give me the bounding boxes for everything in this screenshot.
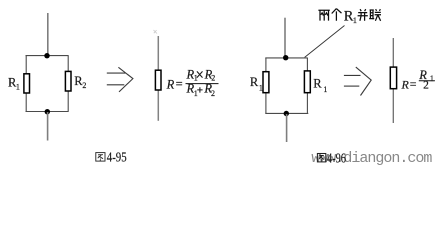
label R1 [8, 75, 20, 91]
formula R = R1*R2/(R1+R2) [166, 67, 219, 98]
wire: right circuit top stub [284, 18, 286, 57]
glyph LIAN (connect) [369, 9, 381, 21]
svg-text:1: 1 [353, 15, 357, 25]
node: left circuit top junction [44, 53, 49, 58]
formula R = R1/2 [401, 68, 435, 92]
svg-text:2: 2 [82, 81, 86, 90]
wire: right circuit bottom rail [265, 112, 308, 114]
arrow: implies arrow 1 [107, 67, 133, 92]
wire: middle resistor lead [157, 36, 159, 121]
svg-text:4-95: 4-95 [107, 150, 127, 165]
resistor R (equivalent, right) [390, 67, 396, 89]
wire: left circuit bottom stub [47, 112, 49, 141]
wire: right circuit top rail [265, 57, 308, 59]
caption: figure 4-95 [96, 150, 127, 165]
svg-text:R: R [166, 77, 175, 91]
wire: left circuit right branch [67, 56, 69, 112]
wire: right circuit left branch [265, 58, 267, 114]
svg-text:1: 1 [194, 89, 198, 98]
svg-text:4-96: 4-96 [327, 150, 346, 165]
glyph GE (piece) [332, 9, 342, 21]
svg-text:1: 1 [16, 83, 20, 92]
svg-text:R: R [313, 77, 322, 91]
svg-text:1: 1 [430, 73, 434, 83]
glyph TU (picture) [317, 154, 325, 162]
resistor R1 (left of right circuit) [263, 72, 269, 93]
caption: figure 4-96 [317, 150, 346, 165]
node: right circuit bottom junction [284, 111, 289, 116]
wire: final resistor lead [392, 38, 394, 123]
arrow: implies arrow 2 [344, 67, 371, 95]
label R1 left [250, 75, 263, 93]
leader line [305, 26, 345, 58]
label R2 [74, 74, 86, 90]
svg-text:1: 1 [259, 84, 263, 93]
resistor R2 [65, 71, 71, 91]
glyph TU (picture) [96, 153, 105, 162]
resistor R1 [24, 74, 30, 93]
resistor R1 (right of right circuit) [304, 71, 310, 93]
wire: right circuit bottom stub [286, 114, 288, 142]
svg-text:R: R [401, 77, 410, 91]
resistor R (equivalent, middle) [155, 70, 161, 90]
label: two R1 in parallel (CJK) [318, 9, 341, 21]
svg-text:=: = [176, 77, 183, 91]
svg-text:=: = [410, 77, 417, 91]
wire: left circuit bottom rail [26, 111, 69, 113]
wire: left circuit top rail [26, 55, 69, 57]
node: left circuit bottom junction [45, 109, 50, 114]
svg-text:1: 1 [194, 73, 198, 82]
noise mark [154, 30, 158, 34]
svg-text:2: 2 [423, 80, 429, 92]
glyph LIANG (two) [318, 10, 329, 20]
node: right circuit top junction [283, 55, 288, 60]
svg-text:1: 1 [323, 85, 327, 94]
label R1 right [313, 77, 327, 95]
svg-text:R: R [250, 75, 259, 89]
wire: left circuit left branch [25, 56, 27, 112]
glyph BING (parallel) [358, 9, 368, 21]
wire: left circuit top stub [47, 13, 49, 56]
svg-text:2: 2 [211, 89, 215, 98]
wire: right circuit right branch [306, 58, 308, 114]
